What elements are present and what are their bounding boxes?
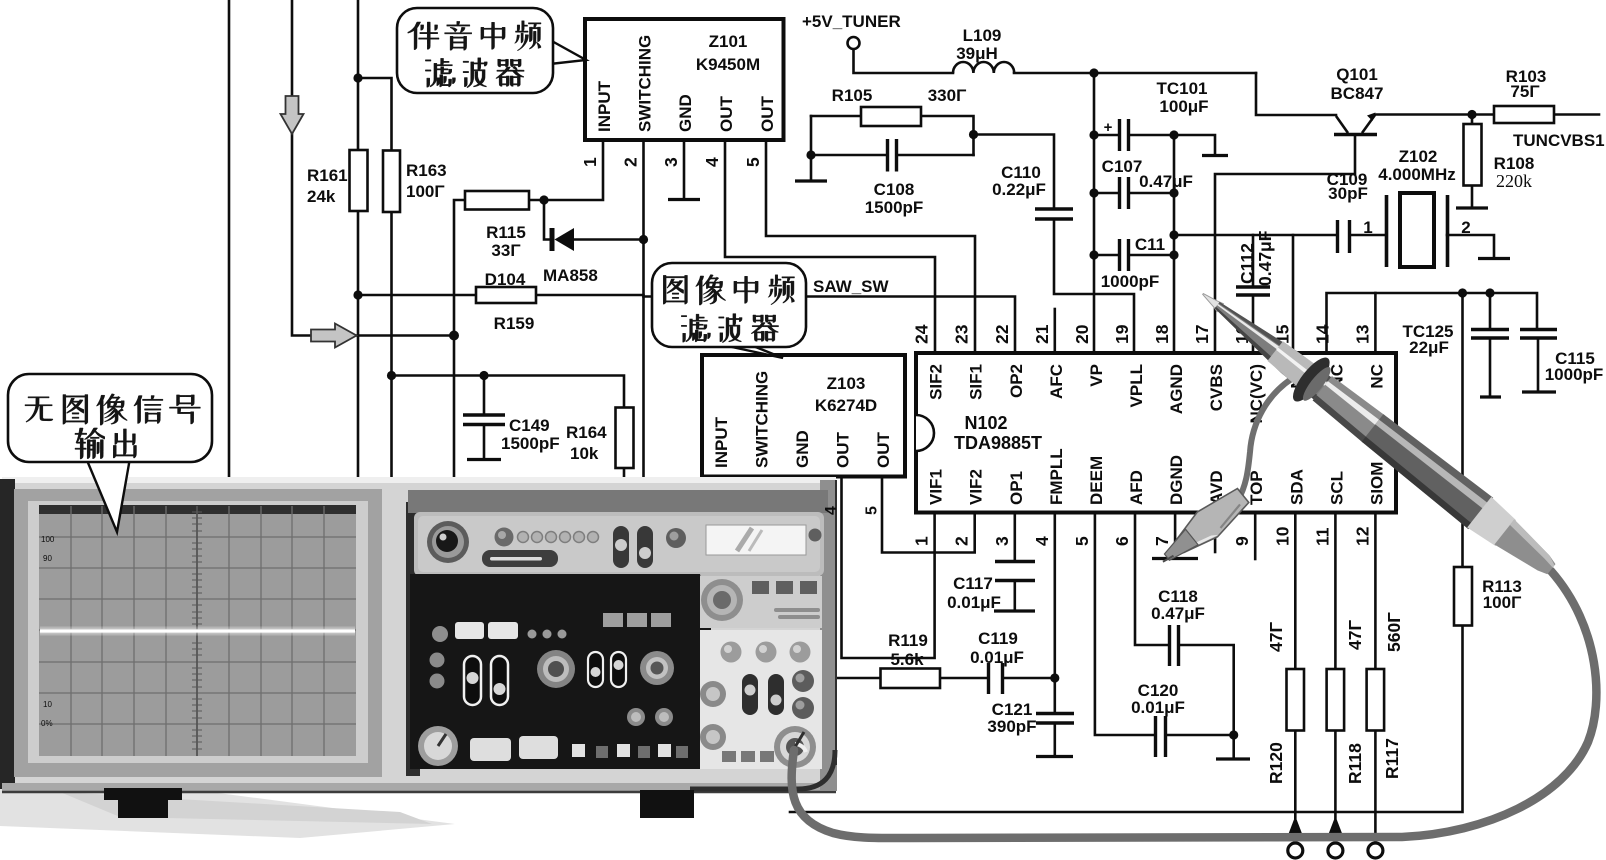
wire C119 right lead <box>1003 677 1055 680</box>
wire R113 top vertical <box>1461 293 1464 567</box>
wire N102 pin18 vertical <box>1173 135 1176 352</box>
wire C115 bottom lead <box>1537 339 1540 392</box>
wire TC101 right lead to ground stub <box>1129 135 1215 154</box>
capacitor C118 <box>1170 625 1179 666</box>
connector arrow SDA <box>1289 816 1302 833</box>
svg-text:R118: R118 <box>1345 743 1365 784</box>
capacitor C107 <box>1120 177 1129 209</box>
svg-text:SIF1: SIF1 <box>967 364 986 400</box>
wire +5V terminal lead <box>854 49 954 73</box>
oscilloscope control section divider <box>406 502 420 776</box>
svg-text:R161: R161 <box>307 166 348 185</box>
wire AFC branch to C110 <box>974 135 1055 209</box>
svg-text:0%: 0% <box>41 719 53 728</box>
wire C149 top lead <box>483 376 486 415</box>
wire R105 left lead <box>811 115 861 118</box>
svg-text:K6274D: K6274D <box>815 396 877 415</box>
wire Z102 right to ground <box>1447 235 1494 257</box>
IC N102 box <box>916 353 1396 513</box>
wire C149 bottom lead <box>483 425 486 459</box>
svg-text:4: 4 <box>702 157 722 167</box>
oscilloscope CRT bezel <box>14 489 382 777</box>
svg-text:AGND: AGND <box>1167 364 1186 414</box>
callout text sound IF filter line1 <box>408 21 541 88</box>
svg-text:390pF: 390pF <box>987 717 1036 736</box>
ground C149 <box>467 458 501 461</box>
svg-text:10: 10 <box>43 700 52 709</box>
svg-text:C117: C117 <box>953 574 993 593</box>
svg-text:C108: C108 <box>874 180 915 199</box>
svg-text:330Γ: 330Γ <box>928 86 967 105</box>
oscilloscope control section top band <box>408 490 828 513</box>
svg-text:SAW_SW: SAW_SW <box>813 277 890 296</box>
svg-text:24: 24 <box>912 324 932 344</box>
svg-text:Z101: Z101 <box>709 32 748 51</box>
connector circle SIOM <box>1368 843 1383 858</box>
svg-text:1: 1 <box>580 157 600 167</box>
wire diode branch from R115 junction <box>544 200 552 240</box>
oscilloscope mid-right panel <box>700 576 822 628</box>
resistor R159 <box>476 287 536 303</box>
resistor R164 <box>616 408 634 469</box>
oscilloscope feet <box>118 788 168 818</box>
wire C108 right lead <box>897 154 974 157</box>
svg-text:R163: R163 <box>406 161 447 180</box>
svg-text:220k: 220k <box>1496 171 1532 191</box>
wire N102 pin13 riser <box>1374 293 1377 352</box>
wire C112 top lead N102 pin16 <box>1252 235 1255 286</box>
svg-text:+5V_TUNER: +5V_TUNER <box>802 12 901 31</box>
wire C120 right lead <box>1166 734 1234 737</box>
wire C109 to Z102 pin1 <box>1350 234 1386 237</box>
svg-text:24k: 24k <box>307 187 336 206</box>
wire Q101 base vertical to N102 pin17 <box>1215 136 1355 352</box>
svg-text:K9450M: K9450M <box>696 55 760 74</box>
wire C112 bottom lead <box>1252 295 1255 352</box>
svg-text:SIF2: SIF2 <box>927 364 946 400</box>
capacitor C111 <box>1120 239 1129 271</box>
wire R105 left vertical to C108 <box>810 116 813 180</box>
ground N102 pin7 <box>1152 557 1198 560</box>
capacitor C115 <box>1520 330 1557 339</box>
resistor R118 <box>1327 669 1345 731</box>
capacitor C120 <box>1156 716 1166 757</box>
svg-text:9: 9 <box>1232 536 1252 546</box>
svg-text:2: 2 <box>952 536 972 546</box>
wire L109 to rail right <box>1014 72 1256 75</box>
svg-text:13: 13 <box>1352 324 1372 344</box>
probe cable <box>792 571 1597 838</box>
svg-text:0.47μF: 0.47μF <box>1139 172 1193 191</box>
wire R113 bottom to bottom rail <box>790 626 1463 813</box>
svg-text:47Γ: 47Γ <box>1345 620 1365 650</box>
svg-text:INPUT: INPUT <box>595 80 614 132</box>
svg-text:OP1: OP1 <box>1007 471 1026 505</box>
wire Z101 pin4 to N102 pin24 <box>725 141 935 352</box>
wire R105 right lead <box>921 116 974 155</box>
svg-text:AFC: AFC <box>1047 364 1066 399</box>
wire N102 pin9 stub <box>1254 513 1257 560</box>
svg-text:0.01μF: 0.01μF <box>970 648 1024 667</box>
svg-text:5: 5 <box>1072 536 1092 546</box>
wire C118 right lead down <box>1179 645 1234 735</box>
wire TC101 left lead <box>1094 134 1118 137</box>
svg-text:0.47μF: 0.47μF <box>1255 230 1275 286</box>
capacitor C112 <box>1236 287 1270 295</box>
wire N102 pin4 FMPLL vertical <box>1054 513 1057 714</box>
svg-text:75Γ: 75Γ <box>1510 82 1539 101</box>
svg-text:100μF: 100μF <box>1159 97 1208 116</box>
svg-text:INPUT: INPUT <box>712 416 731 468</box>
svg-text:17: 17 <box>1192 325 1212 344</box>
svg-text:SCL: SCL <box>1327 471 1346 505</box>
svg-text:DEEM: DEEM <box>1087 456 1106 505</box>
svg-text:1000pF: 1000pF <box>1545 365 1604 384</box>
wire C107 left lead <box>1094 192 1118 195</box>
resistor R105 <box>861 107 921 126</box>
resistor R161 <box>350 150 368 211</box>
resistor R117 <box>1367 669 1385 731</box>
wire SAW_SW net to N102 pin22 <box>644 297 1016 353</box>
svg-text:1500pF: 1500pF <box>865 198 924 217</box>
svg-text:20: 20 <box>1072 324 1092 344</box>
capacitor C108 <box>888 139 897 172</box>
svg-text:4.000MHz: 4.000MHz <box>1378 165 1455 184</box>
svg-text:0.47μF: 0.47μF <box>1151 604 1205 623</box>
ground R108 <box>1456 206 1488 209</box>
svg-text:22μF: 22μF <box>1409 338 1449 357</box>
svg-text:100Γ: 100Γ <box>1483 593 1522 612</box>
wire Z101 pin3 ground stub <box>683 141 686 198</box>
connector arrow SCL <box>1329 816 1342 833</box>
svg-text:TUNCVBS1: TUNCVBS1 <box>1513 131 1605 150</box>
wire N102 pin10 SDA vertical <box>1294 513 1297 670</box>
svg-text:19: 19 <box>1112 324 1132 344</box>
svg-text:NC: NC <box>1367 364 1386 389</box>
svg-text:R119: R119 <box>888 631 928 650</box>
wire C107 right lead <box>1129 192 1174 195</box>
ground C120 C118 <box>1216 757 1250 760</box>
wire diode to Z101 pin2 net <box>573 238 644 241</box>
ground C117 <box>994 609 1035 612</box>
svg-text:21: 21 <box>1032 324 1052 344</box>
svg-text:0.22μF: 0.22μF <box>992 180 1046 199</box>
svg-text:3: 3 <box>992 536 1012 546</box>
svg-text:30pF: 30pF <box>1328 184 1368 203</box>
svg-text:R164: R164 <box>566 423 607 442</box>
connector circle SDA <box>1288 843 1303 858</box>
wire C120 ground stub <box>1232 735 1235 758</box>
svg-text:R105: R105 <box>832 86 873 105</box>
arrow gray down <box>281 96 304 134</box>
svg-text:23: 23 <box>952 324 972 344</box>
svg-text:Z103: Z103 <box>827 374 866 393</box>
svg-text:2: 2 <box>621 157 641 167</box>
svg-text:47Γ: 47Γ <box>1266 622 1286 652</box>
wire C111 left lead <box>1094 254 1118 257</box>
oscilloscope black panel <box>410 574 711 769</box>
wire R161-R163 top link <box>358 78 392 151</box>
diode MA858 <box>550 228 575 251</box>
svg-text:10k: 10k <box>570 444 599 463</box>
probe ground lead wire <box>1238 376 1296 500</box>
wire SAW_SW net R159 line <box>358 294 644 297</box>
svg-text:R115: R115 <box>486 223 526 242</box>
capacitor TC125 <box>1471 330 1509 339</box>
resistor R119 <box>881 669 941 689</box>
wire arrow-net vertical below arrow <box>292 133 454 336</box>
wire R108 bottom lead to ground <box>1471 186 1474 208</box>
capacitor C109 <box>1338 220 1350 253</box>
wire Z103 pin5 to N102 pin2 <box>882 477 975 553</box>
wire SIOM below R117 <box>1374 731 1377 845</box>
svg-text:560Γ: 560Γ <box>1384 612 1404 652</box>
arrow gray right <box>311 324 357 348</box>
svg-text:1000pF: 1000pF <box>1101 272 1160 291</box>
svg-text:AFD: AFD <box>1127 470 1146 505</box>
wire TC125 top lead <box>1489 293 1492 329</box>
resistor R120 <box>1287 669 1305 731</box>
ground C108 <box>795 179 827 182</box>
wire Q101 emitter to R103 <box>1375 113 1494 116</box>
svg-text:1: 1 <box>912 536 932 546</box>
capacitor C121 <box>1036 714 1074 724</box>
svg-text:OP2: OP2 <box>1007 364 1026 398</box>
wire N102 pin8 stub <box>1214 513 1217 553</box>
wire Z101 pin2 vertical <box>642 141 645 478</box>
svg-text:R159: R159 <box>494 314 535 333</box>
wire R103 right lead <box>1554 113 1599 116</box>
wire C108 left lead <box>811 154 886 157</box>
wire SDA below R120 <box>1294 731 1297 819</box>
svg-text:2: 2 <box>1461 218 1470 237</box>
capacitor C110 <box>1035 209 1073 219</box>
svg-text:7: 7 <box>1152 536 1172 546</box>
capacitor C117 <box>995 562 1035 581</box>
svg-text:C149: C149 <box>509 416 550 435</box>
ground C115 <box>1522 390 1556 393</box>
svg-text:R120: R120 <box>1266 742 1286 784</box>
callout bubble: sound IF filter <box>397 8 586 93</box>
oscilloscope case <box>2 477 836 792</box>
svg-text:4: 4 <box>823 506 840 515</box>
wire R161 bottom lead down to scope <box>357 211 360 480</box>
svg-text:5.6k: 5.6k <box>890 650 924 669</box>
wire left bus vertical <box>228 0 231 480</box>
svg-text:VPLL: VPLL <box>1127 364 1146 407</box>
resistor R163 <box>383 151 400 213</box>
wire N102 pin6 AFD to C118 <box>1135 513 1169 646</box>
svg-text:10: 10 <box>1272 526 1292 546</box>
ground Z102 pin2 <box>1478 257 1510 260</box>
IC N102 pin1 notch <box>916 415 934 451</box>
resistor R113 <box>1454 567 1472 626</box>
svg-text:Z102: Z102 <box>1399 147 1438 166</box>
wire C117 bottom lead <box>1013 581 1016 610</box>
svg-text:MA858: MA858 <box>543 266 598 285</box>
svg-text:C11: C11 <box>1135 235 1165 254</box>
svg-text:GND: GND <box>676 94 695 132</box>
callout text no video signal output <box>25 394 200 459</box>
wire R115 left lead vertical <box>454 200 465 480</box>
wire rail corner down to Q101 base line <box>1256 73 1336 115</box>
svg-text:3: 3 <box>661 157 681 167</box>
connector circle SCL <box>1328 843 1343 858</box>
oscilloscope shadow <box>0 788 455 838</box>
wire N102 pin14 pin13 net <box>1327 293 1538 352</box>
wire arrow-net vertical top <box>291 0 294 97</box>
svg-text:0.01μF: 0.01μF <box>1131 698 1185 717</box>
wire TC125 bottom lead <box>1489 339 1492 397</box>
wire R108 top lead <box>1471 115 1474 125</box>
resistor R115 <box>465 191 529 210</box>
wire N102 pin5 DEEM to C120 <box>1095 513 1155 736</box>
svg-text:SWITCHING: SWITCHING <box>636 35 655 132</box>
svg-text:5: 5 <box>743 157 763 167</box>
svg-text:L109: L109 <box>963 26 1002 45</box>
wire N102 pin15 vertical <box>1292 235 1295 352</box>
svg-text:100Γ: 100Γ <box>406 182 445 201</box>
oscilloscope upper panel <box>414 512 824 576</box>
wire C110 bottom to N102 pin19 <box>1054 220 1134 353</box>
svg-text:1500pF: 1500pF <box>501 434 560 453</box>
wire R119 to C119 <box>940 677 988 680</box>
svg-text:5: 5 <box>864 506 881 515</box>
ground TC101 <box>1202 154 1228 157</box>
wire N102 pin12 SIOM vertical <box>1374 513 1377 670</box>
svg-text:DGND: DGND <box>1167 455 1186 505</box>
svg-text:VP: VP <box>1087 364 1106 387</box>
wire N102 pin3 C117 lead <box>1013 513 1016 561</box>
wire Z101 pin5 to N102 pin23 <box>766 141 975 352</box>
oscilloscope <box>0 477 837 838</box>
wire R163 bottom lead down to scope <box>390 212 393 480</box>
svg-text:D104: D104 <box>485 270 526 289</box>
oscilloscope screen <box>39 505 356 756</box>
svg-text:0.01μF: 0.01μF <box>947 593 1001 612</box>
junction dots <box>353 73 362 82</box>
svg-text:12: 12 <box>1352 526 1372 546</box>
wire Z103 pin4 to N102 pin1 <box>842 477 935 659</box>
wire R164 bottom lead <box>623 468 626 478</box>
svg-text:TOP: TOP <box>1247 470 1266 505</box>
resistor R108 <box>1464 124 1482 186</box>
transistor Q101 <box>1334 113 1377 135</box>
svg-text:FMPLL: FMPLL <box>1047 448 1066 505</box>
svg-text:1: 1 <box>1363 218 1372 237</box>
svg-text:SIOM: SIOM <box>1367 462 1386 505</box>
wire C121 bottom lead <box>1054 724 1057 756</box>
wire C109 net horizontal <box>1174 234 1337 237</box>
svg-text:39μH: 39μH <box>956 44 998 63</box>
callout text video IF filter <box>663 275 794 343</box>
capacitor C119 <box>989 663 1003 694</box>
svg-text:CVBS: CVBS <box>1207 364 1226 411</box>
crystal Z102 <box>1387 193 1448 267</box>
oscilloscope trace <box>40 627 355 636</box>
wire SCL below R118 <box>1334 731 1337 819</box>
callout bubble: no video signal output <box>8 374 212 532</box>
probe body <box>1186 273 1568 591</box>
resistor R103 <box>1494 106 1554 123</box>
svg-text:C112: C112 <box>1237 243 1257 284</box>
svg-text:OUT: OUT <box>758 96 777 133</box>
capacitor C149 <box>463 415 505 425</box>
inductor L109 <box>953 62 1014 73</box>
svg-text:VIF1: VIF1 <box>927 469 946 505</box>
svg-text:11: 11 <box>1312 527 1332 546</box>
svg-text:VIF2: VIF2 <box>967 469 986 505</box>
svg-text:14: 14 <box>1312 324 1332 344</box>
wire N102 pin21 stub <box>1054 309 1057 352</box>
svg-text:6: 6 <box>1112 536 1132 546</box>
svg-text:100: 100 <box>41 535 55 544</box>
svg-text:BC847: BC847 <box>1331 84 1384 103</box>
wire R161 top lead <box>357 0 360 150</box>
oscilloscope right panel <box>700 630 822 769</box>
probe alligator clip <box>1152 483 1253 573</box>
wire C149 R164 net horizontal <box>392 376 625 408</box>
svg-text:OUT: OUT <box>834 432 853 469</box>
ground TC125 <box>1480 395 1501 398</box>
IC Z101 box <box>585 19 784 140</box>
svg-text:SDA: SDA <box>1287 469 1306 505</box>
svg-text:+: + <box>1104 119 1113 136</box>
svg-text:C119: C119 <box>978 629 1018 648</box>
svg-text:OUT: OUT <box>874 432 893 469</box>
svg-text:R117: R117 <box>1382 738 1402 779</box>
wire C111 right lead <box>1129 254 1174 257</box>
svg-text:N102: N102 <box>964 413 1007 433</box>
ground C121 <box>1036 755 1073 758</box>
svg-text:C107: C107 <box>1102 157 1143 176</box>
svg-text:4: 4 <box>1032 536 1052 546</box>
capacitor TC101 electrolytic <box>1120 119 1129 151</box>
wire R119 left lead from scope <box>815 677 881 680</box>
wire R115 right to Z101 pin1 <box>529 141 603 200</box>
IC Z103 box <box>702 355 905 477</box>
svg-text:OUT: OUT <box>717 96 736 133</box>
svg-text:Q101: Q101 <box>1336 65 1378 84</box>
svg-text:GND: GND <box>793 430 812 468</box>
svg-text:18: 18 <box>1152 324 1172 344</box>
svg-text:90: 90 <box>43 554 52 563</box>
svg-text:33Γ: 33Γ <box>491 241 520 260</box>
svg-text:22: 22 <box>992 324 1012 344</box>
svg-text:TDA9885T: TDA9885T <box>954 433 1042 453</box>
svg-text:TC101: TC101 <box>1156 79 1207 98</box>
wire N102 pin7 DGND stub <box>1174 513 1177 558</box>
ground Z101 pin3 <box>668 198 700 201</box>
terminal +5V_TUNER <box>848 37 860 49</box>
wire +5V vertical to N102 pin20 <box>1093 73 1096 352</box>
callout bubble: video IF filter <box>652 263 806 358</box>
wire N102 pin11 SCL vertical <box>1334 513 1337 670</box>
svg-text:SWITCHING: SWITCHING <box>753 371 772 468</box>
